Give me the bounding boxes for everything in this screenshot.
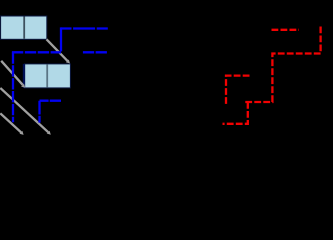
blue wire B6 (dashed floating segment) bbox=[83, 51, 107, 53]
red wire R1 (dashed floating segment, top) bbox=[272, 29, 300, 31]
blue wire B3 (dashed horizontal) bbox=[12, 51, 61, 53]
divider of pair 1 bbox=[23, 17, 25, 39]
block pair 1 (two light-blue cells) bbox=[1, 16, 47, 39]
red wire main staircase upper (R2+R3+R4+R5) bbox=[245, 27, 321, 103]
blue wire B2 (solid vertical from B1 corner down) bbox=[60, 27, 62, 51]
red wire lower step (R6+R7) bbox=[223, 102, 248, 124]
gray diagonal arrow T3 bbox=[0, 113, 23, 135]
blue wire B1 (solid horizontal, top) bbox=[61, 27, 108, 29]
red wire corner piece R8 bbox=[226, 76, 250, 105]
gray diagonal arrow T2 bbox=[0, 88, 51, 135]
block pair 2 (two light-blue cells) bbox=[25, 64, 71, 88]
gray diagonal arrow T1 bbox=[1, 61, 25, 88]
blue wire B5 vertical (dashed) bbox=[38, 101, 40, 123]
blue wire B5 horizontal (dashed) bbox=[40, 100, 62, 102]
gray diagonal arrow G1 (pair1 BR corner to pair2 TR corner) bbox=[47, 39, 71, 63]
navy left band of pair 2 bbox=[23, 64, 25, 88]
divider of pair 2 bbox=[46, 64, 48, 87]
blue wire B4 (dashed vertical) bbox=[12, 52, 14, 122]
